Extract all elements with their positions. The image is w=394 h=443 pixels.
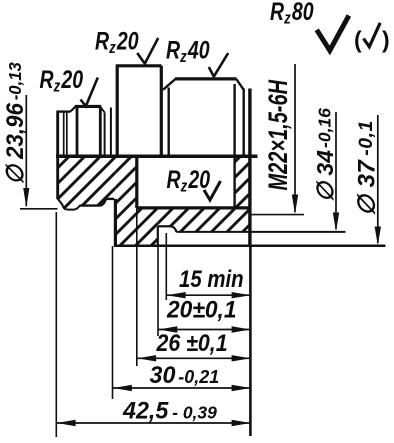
dim line 15min [166, 294, 251, 296]
groove hook [171, 226, 177, 232]
svg-text:Rz20: Rz20 [95, 27, 139, 57]
label Rz20 bore [167, 166, 211, 196]
dim line 26 [137, 357, 251, 359]
arrowheads [23, 188, 381, 426]
arrow M22 down [292, 195, 298, 215]
ext line 26 left [136, 208, 138, 366]
groove line 1 [104, 112, 106, 156]
hatch hex wall section [115, 157, 136, 246]
dim line 20 [158, 329, 251, 331]
M22 dimension line [294, 64, 296, 212]
flange corner chamfer [58, 199, 63, 206]
step vertical under hex [157, 226, 159, 246]
dim line 30 [113, 387, 252, 389]
axis top line H1 [56, 155, 258, 159]
svg-text:Rz20: Rz20 [40, 66, 84, 96]
label Rz80 [270, 0, 314, 28]
bore end face [135, 157, 138, 208]
M22 extension line [250, 214, 304, 216]
dim text 26+-0,1 [156, 329, 228, 356]
svg-text:∅ 37-0,1: ∅ 37-0,1 [354, 120, 381, 216]
svg-text:26 ±0,1: 26 ±0,1 [156, 329, 228, 356]
groove line 2 [110, 108, 112, 157]
roughness tick general [317, 16, 349, 51]
dim text 20+-0,1 [166, 296, 236, 323]
thread boundary vertical [167, 88, 169, 157]
label Rz20 hex [95, 27, 139, 57]
arrows 30 [113, 385, 132, 391]
d23.96 dimension line [25, 95, 27, 206]
ext line 30 left [112, 246, 114, 399]
right face vertical [248, 89, 251, 247]
left stub undercut line 2 [66, 112, 68, 156]
left stub top edge [57, 110, 71, 112]
roughness tick bore [204, 181, 221, 200]
svg-text:20±0,1: 20±0,1 [166, 296, 236, 323]
label Rz20 stub [40, 66, 84, 96]
cylinder d23.96 top edge [75, 105, 101, 108]
thread root vertical [242, 89, 244, 157]
hex top edge [116, 64, 162, 67]
thread top edge [175, 77, 237, 80]
bore thread line H2 [137, 206, 250, 209]
hatch bore-end wall section [137, 208, 158, 246]
svg-text:Rz20: Rz20 [167, 166, 211, 196]
hatch sleeve wall section [158, 208, 250, 232]
ext line 42.5 left [55, 212, 57, 437]
sleeve outer line H5 / d34 extension [176, 231, 345, 233]
roughness tick thread [209, 53, 228, 77]
hex left edge [116, 66, 119, 156]
hatch right end ring section [235, 157, 250, 208]
svg-text:M22×1,5-6H: M22×1,5-6H [263, 79, 294, 190]
thread chamfer left [163, 79, 175, 90]
d34 dimension line [335, 112, 337, 229]
dim text d23,96 rotated [1, 62, 28, 185]
svg-text:∅ 34-0,16: ∅ 34-0,16 [312, 108, 338, 202]
dim text d37-0,1 rotated [354, 120, 381, 216]
flange bottom edge [80, 204, 100, 206]
hex face vertical thick [114, 199, 117, 246]
svg-text:Rz80: Rz80 [270, 0, 314, 28]
cylinder left face [76, 106, 79, 156]
fillet rise [100, 199, 106, 206]
thread chamfer right [236, 79, 243, 90]
dim line 42.5 [56, 422, 251, 424]
roughness tick hex [137, 38, 158, 64]
ext line right common [249, 246, 252, 436]
d37 dimension line [377, 115, 379, 243]
small tick in parens [364, 23, 381, 47]
dim text 15 min [179, 265, 244, 292]
left stub undercut line 1 [63, 112, 65, 156]
arrows 20 [158, 326, 177, 332]
left stub outer vertical [56, 111, 59, 157]
dim text 42,5-0,39 [122, 398, 217, 424]
roughness tick stub [81, 78, 98, 107]
arrows 15min [167, 292, 186, 298]
svg-text:(: ( [354, 27, 362, 53]
d23.96 extension line [20, 208, 58, 210]
ext line 15min left [165, 233, 167, 300]
cylinder right face [99, 106, 102, 156]
chamfer to cylinder [70, 106, 75, 111]
arrow d23.96 down [23, 188, 29, 208]
svg-text:): ) [382, 27, 390, 53]
dim text d34-0,16 rotated [312, 108, 338, 202]
svg-text:∅ 23,96-0,13: ∅ 23,96-0,13 [1, 62, 28, 185]
arrow d34 down [333, 213, 339, 232]
dim text M22x1,5-6H rotated [263, 79, 294, 190]
arrows 42.5 [57, 420, 76, 426]
hex right edge [160, 66, 163, 156]
arrow d37 down [375, 227, 381, 246]
flange left edge lower [56, 157, 59, 199]
label Rz40 [166, 36, 210, 66]
relief notch [63, 206, 80, 210]
hex outer line H6 / d37 extension [114, 245, 386, 248]
svg-text:15 min: 15 min [179, 265, 244, 292]
hatch flange left section [58, 157, 116, 209]
arrows 26 [137, 355, 156, 361]
svg-text:Rz40: Rz40 [166, 36, 210, 66]
ext line 20 left [157, 246, 159, 336]
svg-text:30-0,21: 30-0,21 [150, 363, 220, 389]
thread end vertical inner [233, 84, 235, 208]
chamfer right of cylinder [100, 107, 104, 113]
hex bottom flat [106, 198, 114, 200]
groove ledge [158, 225, 171, 227]
dim text 30-0,21 [150, 363, 220, 389]
